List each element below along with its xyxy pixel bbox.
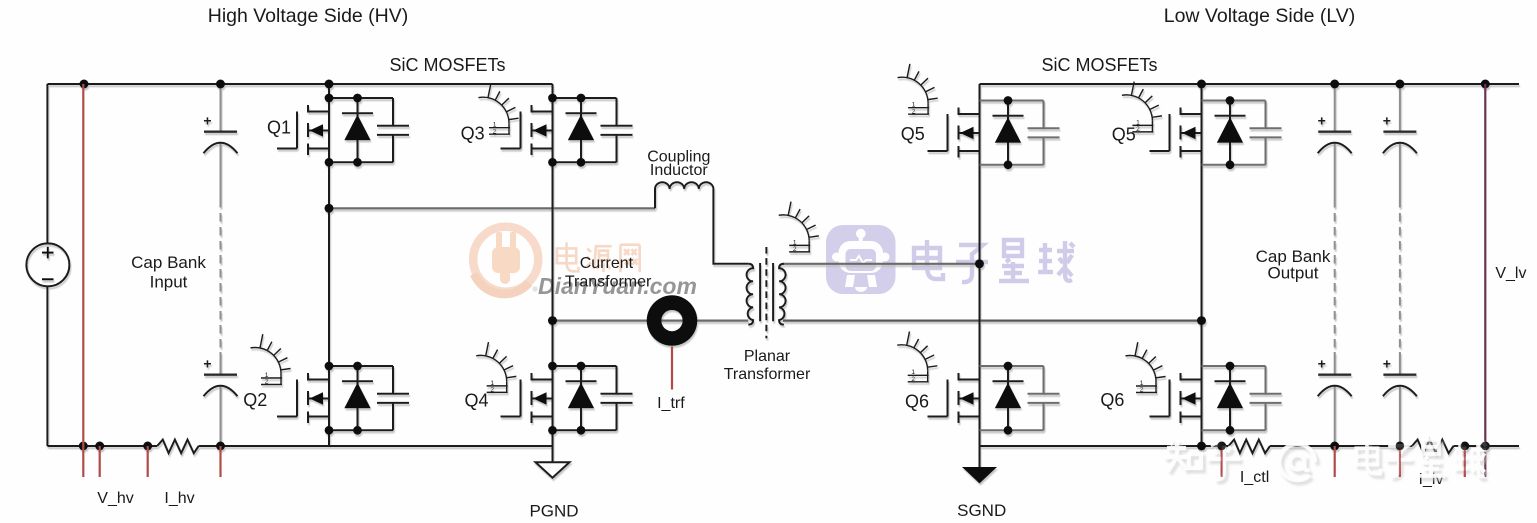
svg-text:Output: Output xyxy=(1267,264,1318,283)
svg-text:Q6: Q6 xyxy=(1100,390,1124,410)
svg-text:Transformer: Transformer xyxy=(565,274,652,291)
svg-text:SiC MOSFETs: SiC MOSFETs xyxy=(389,55,505,75)
svg-text:Current: Current xyxy=(580,255,634,272)
svg-text:Q1: Q1 xyxy=(267,118,291,138)
svg-text:V_lv: V_lv xyxy=(1495,265,1526,282)
svg-text:I_ctl: I_ctl xyxy=(1240,469,1269,486)
svg-text:Low Voltage Side (LV): Low Voltage Side (LV) xyxy=(1164,5,1356,27)
svg-text:Transformer: Transformer xyxy=(724,366,811,383)
svg-text:High Voltage Side (HV): High Voltage Side (HV) xyxy=(208,5,409,27)
svg-text:Q5: Q5 xyxy=(1112,125,1136,145)
svg-text:Q5: Q5 xyxy=(901,124,925,144)
svg-text:SGND: SGND xyxy=(957,501,1006,520)
svg-text:Inductor: Inductor xyxy=(650,162,708,179)
svg-text:I_trf: I_trf xyxy=(657,395,685,412)
svg-text:Cap Bank: Cap Bank xyxy=(131,253,206,272)
svg-text:I_hv: I_hv xyxy=(164,490,194,507)
svg-text:V_hv: V_hv xyxy=(97,490,133,507)
svg-text:Q2: Q2 xyxy=(243,390,267,410)
svg-text:Q3: Q3 xyxy=(461,124,485,144)
svg-text:PGND: PGND xyxy=(529,502,578,521)
svg-text:Q6: Q6 xyxy=(905,392,929,412)
svg-text:SiC MOSFETs: SiC MOSFETs xyxy=(1041,55,1157,75)
svg-text:Planar: Planar xyxy=(744,348,791,365)
svg-text:Q4: Q4 xyxy=(464,391,488,411)
svg-text:Input: Input xyxy=(150,273,188,292)
